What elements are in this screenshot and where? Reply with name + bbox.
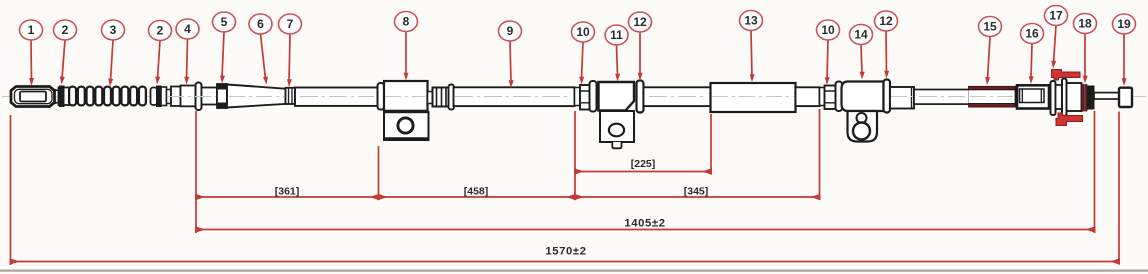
part 17 retainer plates [1051,79,1082,117]
part 2 ferrule (second) [151,86,167,107]
callout 13 [740,11,763,83]
callout 10 (second) [817,20,840,85]
callout 4 [176,19,199,85]
extension line x711 [710,114,712,175]
part 6 tapered boot [227,85,286,108]
extension line x575 [574,111,576,200]
part 8 mounting bracket [384,112,429,140]
callout 19 [1113,14,1136,86]
svg-text:2: 2 [62,23,69,37]
svg-text:15: 15 [983,20,997,34]
part 14 clevis body [842,82,884,112]
part 13 sleeve tube [711,83,796,112]
svg-text:12: 12 [879,14,893,28]
svg-text:10: 10 [821,23,835,37]
callout 15 [979,17,1002,86]
svg-text:7: 7 [287,17,294,31]
part 8 grommet body [384,81,428,111]
part 4 adjuster body [167,83,218,111]
svg-text:11: 11 [610,28,623,42]
part 11 block [599,82,635,111]
extension line left end (1570) [10,115,12,265]
svg-text:4: 4 [184,22,191,36]
part 11 mounting bracket [600,111,634,148]
dimension 1405±2 [196,229,1095,231]
callout 16 [1021,24,1044,85]
callout 18 [1074,14,1097,84]
extension line x1118 (1570 right) [1118,112,1120,265]
svg-text:13: 13 [744,14,758,28]
callout 1 [20,20,43,86]
svg-text:9: 9 [507,24,514,38]
svg-text:12: 12 [633,15,647,29]
part 18 red ring [1082,85,1084,112]
part 8 grommet flange [378,83,385,110]
callout 3 [102,20,125,87]
svg-text:[225]: [225] [631,158,656,170]
part 5 collar ring [217,84,227,108]
callout 9 [499,21,522,88]
wire cable segment B [454,87,575,106]
part 15 red sleeve [969,86,1016,107]
part 10 nut (second) [820,86,837,110]
part 1 end fitting [11,87,59,107]
svg-text:[345]: [345] [684,186,709,198]
svg-text:18: 18 [1078,17,1092,31]
dimension 1570±2 [11,261,1120,263]
callout 17 [1045,6,1068,69]
svg-text:[458]: [458] [464,186,489,198]
dimension [345] [575,196,820,198]
part 17 red clip top [1052,70,1081,81]
callout 11 [605,25,628,82]
extension line x819 [819,109,821,200]
svg-text:10: 10 [576,25,590,39]
wire rod segment E [914,90,969,105]
wire cable segment A [295,88,378,106]
svg-text:16: 16 [1025,27,1039,41]
callout 12 (second) [875,11,898,79]
part 10 nut (first) [575,85,593,110]
svg-text:14: 14 [854,28,868,42]
callout 2 (second) [149,21,172,85]
bottom border line [0,269,1148,271]
centerline [2,96,1146,98]
dimension [458] [379,196,576,198]
part 7 end cap ring [286,88,296,104]
dimension [225] [575,171,711,173]
callout 12 (first) [629,12,652,81]
part 10 flange washer (first) [590,81,597,112]
part 12 washer (first) [637,81,644,113]
part 16 connector [1016,85,1050,108]
svg-text:2: 2 [157,24,164,38]
callout 7 [279,14,302,87]
part 12 washer (second) [884,80,891,113]
callout 14 [850,25,873,80]
svg-text:6: 6 [257,17,264,31]
extension line x1093 (1405 right) [1094,111,1096,233]
extension line x196 [195,111,197,233]
svg-text:1570±2: 1570±2 [545,246,586,258]
wire cable segment D [796,87,820,106]
wire cable segment C [644,87,711,106]
part 8 threaded adjuster [428,85,455,110]
svg-text:1: 1 [28,23,35,37]
callout 5 [213,12,236,84]
part 17 red clip bottom [1056,113,1083,126]
part 10 flange washer (second) [836,82,843,112]
part 14 keyhole slot [853,113,870,140]
callout 10 (first) [572,22,595,85]
callout 2 (first) [54,20,77,85]
centerline overlay segments [168,96,1013,98]
rod cylinder [890,87,914,109]
svg-text:1405±2: 1405±2 [624,218,665,230]
callout 6 [249,14,272,85]
svg-text:8: 8 [403,15,410,29]
svg-text:17: 17 [1049,9,1063,23]
dimension [361] [196,196,379,198]
part 3 bellows conduit spring [69,87,146,106]
svg-text:3: 3 [110,23,117,37]
part 2 ferrule (first) [59,86,73,107]
extension line x378 [378,146,380,200]
part 19 end block [1119,88,1132,107]
part 14 clevis lobe [848,111,878,142]
svg-text:19: 19 [1117,17,1131,31]
svg-text:[361]: [361] [275,186,300,198]
callout 8 [395,12,418,81]
wire rod segment F [1094,93,1119,99]
svg-text:5: 5 [221,15,228,29]
part 18 cap [1087,86,1094,109]
